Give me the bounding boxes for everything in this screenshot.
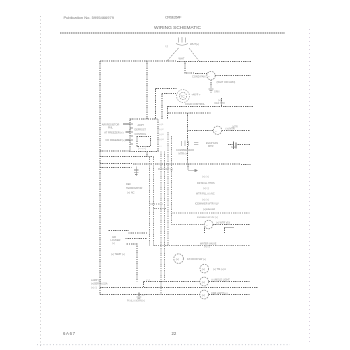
svg-text:NO FREEZER (+): NO FREEZER (+) [106,139,126,142]
water valve circle [204,220,213,229]
svg-text:(+) MOLD LIGHT: (+) MOLD LIGHT [212,279,231,282]
wire water valve line right [213,224,251,226]
wire evap fan line left [187,129,213,131]
cold control thermostat TC [177,90,190,103]
wire rail e [167,132,169,246]
wire H_c [100,167,132,169]
svg-text:WTR FILL (+) NC: WTR FILL (+) NC [196,193,215,196]
wire evap fan line right [222,129,251,131]
evaporator fan motor circle [213,126,221,134]
wire capacitor line [238,143,251,145]
svg-text:MTR: MTR [233,126,238,129]
wire L_t [168,112,212,114]
svg-text:COLD CONTROL: COLD CONTROL [185,103,205,106]
svg-text:PNL: PNL [108,127,113,130]
wire arrow drop [187,164,189,171]
svg-text:(+)solenoid: (+)solenoid [203,208,216,211]
wire mold light line right [209,281,251,283]
arrow connector [188,169,197,172]
wire top bus L1 [100,60,251,63]
svg-text:FZ DOOR SW (+): FZ DOOR SW (+) [187,258,206,261]
svg-text:WHT: WHT [179,56,185,60]
timer circle [200,264,209,273]
svg-text:(+) (+): (+) (+) [202,198,209,201]
wire jog1 [149,203,163,205]
svg-text:(WHT OR GRN): (WHT OR GRN) [217,80,236,84]
wire rail b [153,157,155,246]
plug leg left [167,48,179,61]
terminator symbol [134,167,138,177]
svg-text:FRZ LIGHT (+): FRZ LIGHT (+) [212,292,228,295]
wire rail to control x155 [155,89,157,119]
wire run bus LA [100,163,251,166]
wire H_a [100,156,154,158]
svg-text:~: ~ [206,223,208,227]
adaptive defrost control box B1 [130,119,158,152]
freezer door switch circle [174,254,184,264]
svg-text:TC: TC [181,95,186,99]
wire rail c long [160,151,162,294]
air louver line1b [128,232,148,234]
svg-text:CRSE264F: CRSE264F [165,15,182,20]
compressor terminals [182,141,199,147]
bottom margin dotted line [37,344,290,346]
svg-text:DEF HTR: DEF HTR [215,102,226,105]
svg-text:(+)1: (+)1 [160,124,165,126]
freezer light circle [200,290,209,299]
svg-text:COND FAN: COND FAN [192,75,206,79]
svg-text:(+) WTR VLV: (+) WTR VLV [216,222,231,225]
svg-text:(+) (-): (+) (-) [91,286,97,289]
svg-text:22: 22 [172,331,177,336]
wire left rail V0 [99,61,101,295]
svg-text:DEF: DEF [126,183,131,186]
wire rail to control x161 [161,94,163,119]
air louver line3 [127,243,137,245]
svg-text:(+): (+) [202,267,205,271]
wire jog2 [154,208,167,210]
svg-text:(-): (-) [166,44,169,48]
bottom ground symbol [137,297,142,298]
svg-text:DEFROST: DEFROST [135,129,147,132]
wire freezer light line left [100,294,200,296]
wire mold light line left [144,281,200,283]
svg-text:(+)3: (+)3 [160,134,165,136]
wire icemaker bus L7 [171,212,250,214]
label connect line 2 [126,131,131,133]
wire L8 bus [154,245,251,247]
svg-text:(+): (+) [202,293,205,297]
svg-text:WIRING SCHEMATIC: WIRING SCHEMATIC [154,25,202,31]
svg-text:(+) NC: (+) NC [127,192,135,195]
ground symbol condenser [209,89,214,92]
svg-text:(+)4: (+)4 [160,139,165,141]
water valve cap tick2 [224,227,234,229]
svg-text:CONTROL: CONTROL [135,133,147,136]
wire V1 lower stub [146,151,148,156]
wire water valve line left [171,224,204,226]
svg-text:P(+)L (+)GRN(+): P(+)L (+)GRN(+) [127,300,145,303]
control pin ticks [130,124,133,144]
ground wire bottom [138,293,140,298]
svg-text:(+) (-): (+) (-) [203,187,209,190]
wire rail a [148,157,150,246]
label connect line 1 [123,123,130,125]
svg-text:+ +: + + [159,146,163,148]
svg-text:(+): (+) [202,280,205,284]
header divider dashed rule [60,32,285,34]
svg-text:< <: < < [146,278,150,282]
svg-text:CAP: CAP [231,146,236,149]
svg-text:NM: NM [141,295,145,297]
wire rail V1 [146,61,148,119]
wire capacitor stub [228,143,233,145]
wire condenser fan ground drop [210,80,212,89]
wire freezer light line right [209,294,251,296]
plug leg right [189,48,199,61]
wire TC stub2 [162,93,176,95]
water valve cap tick1 [203,228,205,234]
svg-text:( < + > ): ( < + > ) [138,147,146,150]
svg-text:(+) (-): (+) (-) [204,246,210,249]
svg-text:(+) (+): (+) (+) [202,175,209,178]
wire defrost heater line L4 [168,106,253,108]
svg-text:ADPT: ADPT [138,124,145,127]
wire TC stub [156,88,177,90]
svg-text:(+): (+) [176,257,179,261]
condenser fan motor circle M1 [207,71,215,79]
air louver line1 [109,229,129,231]
right margin dotted line [309,29,310,342]
svg-text:MTR: MTR [208,145,214,148]
wire evap drop x187 [186,113,188,164]
left margin dotted line [40,16,41,346]
svg-text:AT FREEZER (+): AT FREEZER (+) [104,132,123,135]
label connect line 3 [126,139,131,141]
svg-text:(+)2: (+)2 [160,129,165,131]
wire louver drop [136,243,138,281]
wire V2 drop to condenser fan [185,61,207,74]
wire rail f [170,136,172,225]
air louver line2 [125,238,147,240]
mold light circle [200,277,209,286]
svg-text:6A67: 6A67 [63,331,76,336]
svg-text:WHT(+): WHT(+) [190,42,199,46]
svg-text:~: ~ [208,74,210,78]
service cord plug prongs [167,37,199,61]
svg-text:+40°F +: +40°F + [192,94,201,97]
wire L3 right of condenser fan [215,75,251,77]
capacitor plates [233,142,235,150]
svg-text:ICEMAKER WTR VLV: ICEMAKER WTR VLV [195,202,219,205]
svg-text:DR MULL HTRS: DR MULL HTRS [197,182,215,185]
wire V0 to box bottom [100,150,130,152]
wire bottom bus mid [100,287,258,289]
svg-text:MTR (+): MTR (+) [179,153,188,156]
control inner box [137,136,151,146]
wire rail to control x167 [167,106,169,119]
svg-text:RUN CAP (+): RUN CAP (+) [158,168,173,171]
svg-text:GRN: GRN [214,91,220,94]
svg-text:(+) TM (+) A: (+) TM (+) A [213,268,226,271]
svg-text:Publication No. 5995466979: Publication No. 5995466979 [64,15,115,20]
wire tick bottom [143,282,145,288]
wire rail d [164,151,166,281]
svg-text:LAMP (+): LAMP (+) [91,279,101,282]
svg-text:(+)SER (+) 15A: (+)SER (+) 15A [91,283,108,286]
svg-text:icemaker wtr vlv (+): icemaker wtr vlv (+) [197,216,218,219]
svg-text:TERMINATOR: TERMINATOR [126,187,142,190]
svg-text:(+): (+) [112,242,115,245]
svg-text:~: ~ [215,129,217,133]
svg-text:(+) TEMP (+): (+) TEMP (+) [111,253,125,256]
wire hi-side tick [221,98,223,107]
